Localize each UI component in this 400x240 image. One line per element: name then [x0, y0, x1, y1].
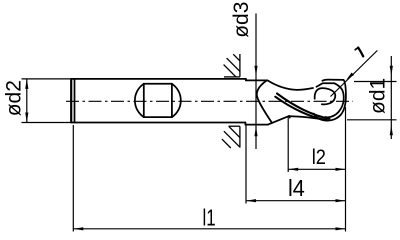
svg-text:ød2: ød2: [3, 80, 26, 116]
svg-text:ød1: ød1: [367, 78, 390, 114]
svg-text:l1: l1: [203, 205, 216, 231]
svg-text:ød3: ød3: [230, 2, 253, 38]
svg-text:l2: l2: [312, 145, 326, 169]
svg-text:l4: l4: [288, 175, 305, 201]
